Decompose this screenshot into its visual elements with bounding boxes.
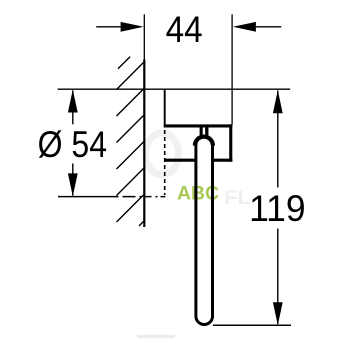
extension line bottom of 119 xyxy=(213,324,291,326)
holder loop top dome xyxy=(195,137,213,146)
watermark ring xyxy=(146,133,179,175)
holder loop capsule xyxy=(196,137,213,325)
top extension line (horizontal) xyxy=(58,88,291,90)
dimension 44 right arrow xyxy=(233,22,256,32)
dimension D54 down arrow xyxy=(68,173,78,196)
dimension 44 left arrow xyxy=(121,22,144,32)
wall line xyxy=(143,60,145,228)
svg-text:Ø 54: Ø 54 xyxy=(38,124,107,165)
dimension 119 line upper segment xyxy=(277,91,279,188)
dimension D54 up arrow xyxy=(68,90,78,113)
svg-text:119: 119 xyxy=(249,188,306,229)
svg-text:44: 44 xyxy=(166,9,203,50)
dimension 119 line lower segment xyxy=(277,229,279,325)
extension line left of 44 (wall top) xyxy=(143,14,145,59)
wall hatching xyxy=(117,57,146,226)
plate front edge hidden (dashed) xyxy=(164,130,166,195)
holder stem right stroke xyxy=(205,126,208,138)
dimension 119 up arrow xyxy=(273,90,283,113)
svg-text:FL: FL xyxy=(224,188,251,209)
dimension 44 left tail xyxy=(96,26,121,28)
plate front edge (solid) xyxy=(164,90,166,128)
watermark bottom smudge xyxy=(137,335,175,338)
dimension D54 line upper segment xyxy=(72,91,74,125)
bracket bottom edge right part xyxy=(213,159,232,162)
dimension D54 line lower segment xyxy=(72,164,74,196)
dimension 119 down arrow xyxy=(273,302,283,325)
bottom extension line of D54 xyxy=(58,196,113,198)
bracket top edge xyxy=(164,124,233,127)
dimension 44 right tail xyxy=(256,26,281,28)
bracket right edge xyxy=(229,124,232,161)
holder stem left stroke xyxy=(200,126,203,138)
extension line right of 44 xyxy=(231,14,233,124)
bracket bottom edge left part xyxy=(165,159,195,162)
